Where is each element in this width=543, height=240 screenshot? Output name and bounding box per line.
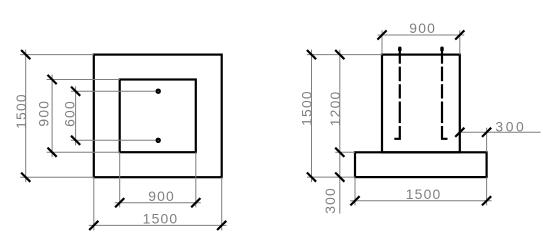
extension line bottom (outer square to 1500 dim): [20, 176, 94, 178]
extension line (inner square right bottom, to 900 dim below): [195, 152, 197, 207]
extension line (footing bottom-right down to 1500 dim): [486, 177, 488, 205]
extension line top (outer square to 1500 dim): [20, 54, 94, 56]
anchor bolt 1 (elevation): hidden dashed shank: [399, 67, 401, 124]
anchor bolt 2 (elevation): stub above concrete: [441, 47, 443, 64]
svg-text:300: 300: [495, 119, 526, 135]
svg-text:600: 600: [61, 100, 77, 127]
extension line (footing top-left to 1200/300 dims): [335, 151, 355, 153]
svg-text:900: 900: [36, 100, 52, 127]
footing (elevation) 1500 wide x 300 tall: [355, 152, 487, 177]
dimension line 1500 (plan bottom): [89, 221, 227, 230]
extension line (pedestal top-left to left dims): [307, 54, 382, 56]
dim text 1500 (elevation bottom): [406, 186, 442, 202]
dim text 900 (elevation top): [409, 20, 436, 36]
extension line (inner square left bottom, to 900 dim below): [119, 152, 121, 207]
dimension line 1500 (elevation bottom): [350, 196, 492, 205]
leader line to bolt B1: [71, 90, 155, 92]
pedestal (elevation) 900 wide x 1200 tall: [382, 55, 460, 153]
svg-text:1200: 1200: [327, 91, 343, 127]
dimension line 600 (left vertical): [71, 86, 80, 145]
svg-text:1500: 1500: [13, 93, 29, 129]
dimension line 900 (elevation top): [377, 30, 464, 39]
dim text 300 (footing height, outside below): [322, 187, 338, 214]
dimension line 1200/300 (elevation left inner column): [335, 50, 344, 214]
extension line bottom (inner square to 900 dim): [47, 151, 120, 153]
outer footing square (plan) 1500x1500: [94, 55, 222, 178]
anchor bolt 1 (elevation): stub above concrete: [399, 47, 401, 64]
svg-text:900: 900: [148, 188, 175, 204]
extension line (outer square left bottom, to 1500 dim below): [93, 177, 95, 230]
extension line (footing bottom-left down to 1500 dim): [354, 177, 356, 205]
dimension line 900 (plan bottom): [115, 198, 201, 207]
anchor bolt 1 (elevation): L hook foot: [394, 126, 400, 139]
svg-text:1500: 1500: [143, 211, 179, 227]
anchor bolt 2 (elevation): hidden dashed shank: [441, 67, 443, 124]
extension line (outer square right bottom, to 1500 dim below): [221, 177, 223, 230]
dim text 900 (plan bottom): [148, 188, 175, 204]
anchor bolt 2 (elevation): L hook foot: [442, 126, 448, 139]
extension line up (pedestal left, to 900 dim): [381, 30, 383, 54]
leader line to bolt B2: [71, 139, 155, 141]
anchor bolt B2 (plan, donut): [157, 139, 160, 142]
svg-text:300: 300: [322, 187, 338, 214]
anchor bolt B1 (plan, donut): [157, 90, 160, 93]
dim text 600 (left vertical): [61, 100, 77, 127]
inner pedestal square (plan) 900x900: [120, 80, 196, 153]
dim text 1500 (elevation left): [299, 90, 315, 126]
dim text 1500 (left vertical): [13, 93, 29, 129]
extension line (footing top-right corner up to 300 dim): [486, 128, 488, 153]
svg-text:1500: 1500: [299, 90, 315, 126]
svg-text:900: 900: [409, 20, 436, 36]
dim text 1500 (plan bottom): [143, 211, 179, 227]
dimension line 1500 (elevation left): [307, 50, 316, 183]
dimension line 900 (left vertical): [48, 75, 57, 158]
dim text 300 (elevation right ledge): [495, 119, 526, 135]
dim text 1200 (elevation left): [327, 91, 343, 127]
extension line (footing bottom-left to left dims): [307, 176, 355, 178]
dimension line 300 (elevation right ledge): [455, 128, 540, 137]
svg-text:1500: 1500: [406, 186, 442, 202]
extension line up (pedestal right, to 900 dim): [459, 30, 461, 54]
dimension line 1500 (left vertical): [21, 50, 30, 183]
extension line top (inner square to 900 dim): [47, 79, 120, 81]
dim text 900 (left vertical): [36, 100, 52, 127]
